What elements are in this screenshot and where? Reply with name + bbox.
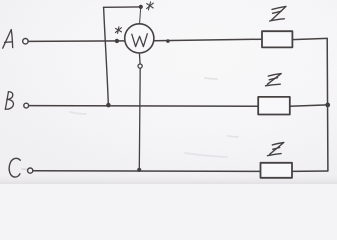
junction on right bus xyxy=(325,103,330,108)
node A label xyxy=(3,30,13,49)
junction * terminal of wattmeter on A xyxy=(115,39,119,43)
asterisk at voltage terminal xyxy=(147,2,154,10)
wire phase A right xyxy=(154,39,262,41)
paper background xyxy=(0,0,337,184)
wire wattmeter bottom lead xyxy=(138,53,141,64)
wire wattmeter lead down to C xyxy=(138,68,141,169)
label Z1 xyxy=(270,6,286,21)
wire Z3 to bus bottom xyxy=(292,170,328,172)
wire Z1 to right bus xyxy=(292,38,327,39)
wattmeter U1 xyxy=(125,24,154,53)
junction dot right of wattmeter xyxy=(166,39,170,43)
node C label xyxy=(9,158,20,177)
junction on B line (voltage coil) xyxy=(106,103,111,108)
terminal below wattmeter xyxy=(138,64,142,68)
wire Z2 to bus junction xyxy=(290,105,328,106)
label Z3 xyxy=(268,143,284,156)
label Z2 xyxy=(266,74,282,86)
wire phase B xyxy=(29,105,258,108)
wire wattmeter top lead xyxy=(140,8,141,23)
faint dash between C and terminal xyxy=(22,168,27,170)
wire right bus vertical xyxy=(326,38,329,171)
terminal top of voltage coil xyxy=(139,5,143,9)
impedance Z1 box xyxy=(262,31,292,47)
terminal C xyxy=(28,168,33,173)
wire phase A left xyxy=(29,40,125,43)
asterisk at wattmeter current terminal xyxy=(115,27,121,34)
node B label xyxy=(5,92,13,109)
wire voltage coil top bracket to B xyxy=(103,6,140,8)
wire phase C xyxy=(33,170,261,173)
terminal B xyxy=(24,103,29,108)
junction on C line (wattmeter lead) xyxy=(137,168,141,172)
smudge marks (faint) xyxy=(70,78,238,157)
terminal A xyxy=(23,39,28,44)
impedance Z3 box xyxy=(261,163,293,178)
impedance Z2 box xyxy=(258,97,290,115)
